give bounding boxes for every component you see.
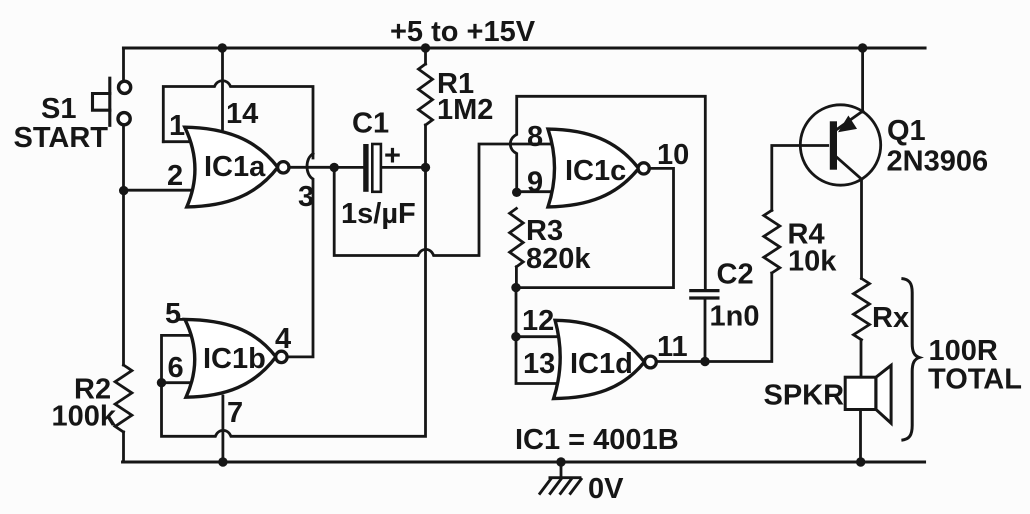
svg-text:IC1 = 4001B: IC1 = 4001B bbox=[515, 424, 679, 456]
node: R1 top at supply rail bbox=[421, 43, 430, 52]
node: Q1 emitter at supply rail bbox=[858, 43, 867, 52]
wire: IC1a output to node B bbox=[289, 166, 334, 169]
wire: speaker to 0V rail bbox=[859, 410, 862, 463]
svg-text:10: 10 bbox=[657, 139, 689, 171]
IC1d output bubble (pin 11) bbox=[645, 356, 657, 368]
svg-text:8: 8 bbox=[527, 121, 543, 153]
svg-text:2: 2 bbox=[167, 160, 183, 192]
node A: S1 / pin2 / R2 junction bbox=[119, 186, 128, 195]
capacitor C2 bbox=[689, 291, 719, 298]
ground symbol bbox=[539, 462, 582, 495]
wire: node B down, right (hop over node-C line), up to IC1c pin 8 bbox=[334, 144, 553, 256]
node C: C1 / R1 / IC1b pins 5-6 junction bbox=[421, 163, 430, 172]
svg-text:10k: 10k bbox=[788, 246, 837, 278]
wire: IC1b pin 7 down to 0V rail bbox=[221, 396, 224, 462]
wire: supply rail to Q1 emitter bbox=[861, 48, 864, 112]
wire: IC1b pin4 to IC1a pin1 vertical, hop over IC1a output wire bbox=[287, 154, 313, 357]
wire: R1 bottom to node C bbox=[424, 125, 427, 167]
NOR gate IC1b bbox=[185, 319, 276, 397]
wire: pin 9 stub bbox=[517, 190, 551, 193]
svg-text:Rx: Rx bbox=[872, 302, 909, 334]
wire: R3 bottom to node D bbox=[515, 267, 518, 288]
wire: node B to C1 left plate bbox=[334, 166, 363, 169]
svg-text:11: 11 bbox=[657, 331, 688, 363]
transistor Q1 (PNP 2N3906) bbox=[800, 105, 880, 185]
wire: C2 bottom plate to pin11 node bbox=[704, 300, 707, 362]
svg-text:100k: 100k bbox=[52, 401, 117, 433]
svg-text:IC1d: IC1d bbox=[570, 348, 633, 380]
svg-text:1M2: 1M2 bbox=[437, 94, 493, 126]
resistor R4 bbox=[764, 210, 780, 273]
wire: node A to IC1a pin 2 bbox=[124, 189, 191, 192]
wire: IC1b pin5/pin6 tie box bbox=[162, 335, 192, 382]
node B: IC1a output / C1 / IC1c pin8 feed bbox=[330, 163, 339, 172]
svg-text:12: 12 bbox=[522, 305, 554, 337]
wire: pin 5 corner tick bbox=[178, 318, 187, 321]
capacitor C1 (polarized) bbox=[363, 144, 368, 192]
wire: top rail to S1 top terminal bbox=[122, 48, 125, 81]
wire: IC1c pin9-to-C2 feedback box, hop over pin8 wire bbox=[510, 96, 705, 289]
svg-text:C1: C1 bbox=[352, 108, 389, 140]
NOR gate IC1c bbox=[548, 129, 639, 207]
brace for Rx+SPKR total resistance bbox=[901, 279, 919, 441]
IC1a output bubble (pin 3) bbox=[278, 162, 289, 173]
node: speaker at 0V rail bbox=[856, 457, 865, 466]
wire: node C down to pins 5-6 horizontal run (hop over pin7 wire) bbox=[162, 167, 426, 436]
svg-text:IC1b: IC1b bbox=[203, 343, 266, 375]
wire: +V top supply rail bbox=[124, 46, 926, 49]
IC1c output bubble (pin 10) bbox=[638, 163, 649, 174]
op-amp... NOR gate IC1a bbox=[185, 127, 278, 207]
svg-text:5: 5 bbox=[165, 298, 181, 330]
svg-text:13: 13 bbox=[523, 348, 555, 380]
svg-text:820k: 820k bbox=[526, 243, 591, 275]
wire: IC1c output pin10 down to node D bbox=[516, 168, 674, 287]
wire: C1 right plate to node C bbox=[382, 166, 426, 169]
svg-text:7: 7 bbox=[227, 397, 243, 429]
wire: pin 12 stub bbox=[516, 335, 558, 338]
resistor R1 bbox=[419, 64, 433, 125]
svg-text:1n0: 1n0 bbox=[710, 301, 760, 333]
node D: R3 / pin10 / pins12-13 junction bbox=[511, 283, 520, 292]
node: pin 9 / R3 top junction bbox=[512, 188, 521, 197]
wire: node A down to R2 bbox=[122, 191, 125, 365]
wire: 0V bottom rail bbox=[123, 460, 925, 463]
node: ground tap on 0V rail bbox=[556, 457, 565, 466]
svg-text:IC1c: IC1c bbox=[565, 155, 626, 187]
node: pin 12 junction bbox=[511, 332, 520, 341]
switch S1 (push-button) bbox=[93, 78, 131, 125]
wire: IC1d output to R4 bottom corner bbox=[656, 273, 772, 362]
svg-text:Q1: Q1 bbox=[887, 115, 926, 147]
svg-text:S1: S1 bbox=[41, 93, 76, 125]
svg-text:SPKR: SPKR bbox=[764, 380, 845, 412]
svg-text:6: 6 bbox=[168, 352, 184, 384]
wire: S1 bottom terminal down to node A bbox=[122, 126, 125, 191]
wire: node D down to IC1d pins 12/13 tie bbox=[516, 288, 562, 384]
node: pin 6 junction bbox=[157, 378, 166, 387]
speaker SPKR bbox=[845, 365, 891, 423]
svg-text:C2: C2 bbox=[717, 259, 754, 291]
wire: rail to R1 bbox=[424, 48, 427, 64]
svg-text:0V: 0V bbox=[588, 473, 624, 505]
wire: IC1a pin1 feedback box (to IC1b pin4 line) with hop over pin14 wire bbox=[163, 81, 313, 158]
NOR gate IC1d bbox=[554, 320, 645, 398]
resistor R2 bbox=[115, 365, 132, 432]
wire: pin1 stub bbox=[163, 140, 188, 143]
svg-text:9: 9 bbox=[527, 167, 543, 199]
node: pin 7 at 0V rail bbox=[218, 457, 227, 466]
svg-text:100R: 100R bbox=[929, 335, 998, 367]
svg-text:START: START bbox=[14, 122, 109, 154]
IC1b output bubble (pin 4) bbox=[276, 351, 287, 362]
wire: Rx bottom to speaker bbox=[860, 340, 863, 377]
wire: pin 14 from top rail to IC1a bbox=[218, 43, 227, 52]
svg-text:1s/µF: 1s/µF bbox=[341, 198, 416, 230]
svg-text:14: 14 bbox=[226, 98, 258, 130]
node: C2 bottom junction on pin11 wire bbox=[700, 357, 709, 366]
resistor Rx bbox=[854, 279, 870, 340]
wire: Q1 collector down to Rx bbox=[860, 179, 863, 278]
wire: R2 bottom to 0V rail bbox=[122, 432, 125, 462]
svg-text:+5 to +15V: +5 to +15V bbox=[390, 16, 536, 48]
resistor R3 bbox=[510, 208, 524, 266]
svg-text:4: 4 bbox=[275, 323, 291, 355]
svg-text:IC1a: IC1a bbox=[204, 151, 266, 183]
wire: R4 top up and right to Q1 base bbox=[772, 146, 828, 211]
svg-text:2N3906: 2N3906 bbox=[887, 146, 989, 178]
svg-text:TOTAL: TOTAL bbox=[928, 364, 1022, 396]
